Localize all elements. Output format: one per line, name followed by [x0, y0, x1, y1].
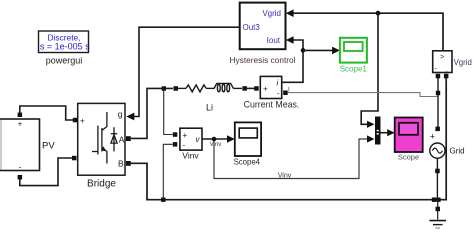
Li left port: [174, 86, 179, 91]
arrow into g: [126, 113, 134, 121]
ground stem: [437, 200, 439, 220]
wire v output to Scope4: [202, 138, 229, 140]
arrow into Vgrid input: [286, 9, 294, 17]
wire node A to Li: [131, 88, 173, 138]
wire mux top input from Vgrid junction: [361, 13, 378, 124]
wire node B from Bridge: [131, 78, 446, 200]
junction on v wire: [212, 137, 217, 142]
Bridge B port: [126, 161, 131, 166]
powergui block: [39, 31, 91, 66]
svg-text:Vinv: Vinv: [210, 142, 222, 148]
svg-text:Scope4: Scope4: [234, 158, 261, 167]
arrow into Scope1: [332, 47, 340, 55]
Current Meas input port: [254, 86, 259, 91]
svg-text:Out3: Out3: [243, 23, 261, 32]
svg-text:+: +: [18, 120, 23, 129]
svg-text:i: i: [277, 79, 279, 88]
junction with gray wire: [436, 91, 440, 95]
PV top port: [18, 113, 23, 118]
Vgrid bottom-left port: [436, 74, 441, 79]
svg-text:-: -: [19, 163, 22, 172]
bridge U1: [78, 103, 125, 189]
svg-text:s = 1e-005 s: s = 1e-005 s: [40, 42, 90, 52]
ground port: [436, 207, 441, 212]
svg-text:.: .: [446, 67, 448, 74]
arrow into Scope4: [227, 135, 235, 143]
wire Vgrid left port down to AC source: [437, 78, 439, 127]
svg-text:-: -: [277, 89, 280, 98]
svg-text:Vgrid: Vgrid: [454, 58, 472, 67]
ground symbol: [429, 221, 446, 228]
IGBT icon inside bridge: [92, 112, 117, 164]
mux: [375, 117, 381, 145]
mux output wire: [381, 132, 390, 134]
Vinv - port: [173, 142, 178, 147]
svg-text:+: +: [263, 85, 268, 94]
AC source Grid: [430, 131, 465, 158]
arrow into Scope: [387, 129, 395, 136]
svg-text:Scope1: Scope1: [340, 65, 368, 74]
arrow into mux in1: [367, 121, 375, 128]
PV block: [0, 119, 55, 172]
svg-text:powergui: powergui: [46, 56, 83, 66]
wire Vgrid meas to Vgrid input: [293, 13, 444, 51]
svg-text:PV: PV: [42, 141, 55, 152]
Bridge - port: [72, 156, 77, 161]
wire PV- to Bridge -: [20, 158, 72, 186]
svg-text:Current Meas.: Current Meas.: [244, 100, 300, 110]
wire AC source bottom to node: [436, 158, 438, 200]
hysteresis control block: [230, 3, 296, 65]
wire Vinv signal to mux in2: [214, 139, 367, 179]
Bridge + port: [73, 118, 78, 123]
svg-text:Scope: Scope: [398, 153, 419, 162]
svg-text:Iout: Iout: [267, 36, 281, 45]
wire Current Meas - to grid node (gray): [288, 93, 438, 97]
Current Meas - output port: [283, 91, 288, 96]
svg-text:Hysteresis control: Hysteresis control: [230, 55, 296, 65]
svg-text:Vinv: Vinv: [182, 151, 199, 161]
svg-text:+: +: [430, 131, 435, 141]
wire junction to Vinv +: [164, 90, 173, 135]
bottom node junctions: [432, 198, 436, 202]
Vinv measurement block: [180, 128, 202, 160]
svg-text:Grid: Grid: [450, 147, 465, 156]
svg-text:+: +: [80, 117, 85, 126]
scope4: [234, 122, 262, 166]
Li right port: [242, 86, 247, 91]
svg-text:Vgrid: Vgrid: [262, 9, 281, 18]
current measurement block: [244, 76, 300, 109]
svg-text:A: A: [119, 135, 125, 145]
Vinv + port: [173, 132, 178, 137]
svg-text:+: +: [183, 131, 188, 140]
svg-text:Bridge: Bridge: [87, 179, 116, 190]
junction on Vgrid wire: [376, 11, 381, 16]
svg-text:>: >: [440, 54, 444, 61]
svg-text:g: g: [118, 109, 123, 119]
AC source top port: [435, 127, 440, 132]
Vgrid bottom-right port: [444, 74, 449, 79]
junction on i wire: [301, 48, 306, 53]
AC source bottom port: [435, 169, 440, 174]
Bridge A port: [126, 136, 131, 141]
node A junction: [162, 86, 166, 90]
wire i output to Iout: [282, 40, 303, 82]
wire junction to Vinv -: [163, 144, 172, 197]
scope1: [340, 38, 368, 74]
magenta scope: [395, 118, 423, 162]
arrow into Iout: [286, 36, 294, 44]
svg-text:Vinv: Vinv: [278, 173, 292, 180]
PV bottom port: [18, 175, 23, 180]
wire Li to Current Meas: [247, 87, 255, 89]
Vgrid measurement block: [433, 51, 472, 74]
wire Out3 to g (gate wire): [134, 27, 240, 116]
arrow into mux in2: [367, 135, 375, 142]
svg-text:B: B: [118, 159, 124, 169]
svg-text:Li: Li: [206, 103, 213, 113]
RL branch Li: [178, 83, 242, 92]
wire to Scope1: [303, 49, 335, 51]
svg-text:-: -: [183, 141, 186, 150]
wire PV+ to Bridge +: [20, 106, 73, 120]
node B junction: [161, 198, 165, 202]
